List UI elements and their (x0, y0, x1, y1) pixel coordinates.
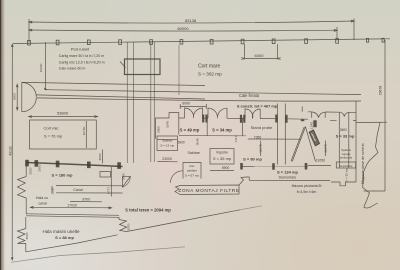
svg-text:Spatii la: Spatii la (341, 148, 351, 152)
svg-text:60000: 60000 (177, 26, 189, 31)
svg-text:S = 80 mp: S = 80 mp (243, 157, 262, 162)
svg-text:Inst.: Inst. (189, 164, 195, 168)
svg-text:23000: 23000 (162, 157, 172, 161)
svg-text:Cale ferata: Cale ferata (239, 93, 260, 98)
svg-text:3245: 3245 (166, 121, 170, 128)
svg-text:S = 57 mp: S = 57 mp (185, 174, 199, 178)
svg-text:S total teren = 2094 mp: S total teren = 2094 mp (125, 207, 171, 212)
svg-text:10700: 10700 (82, 126, 86, 135)
svg-text:sablare: sablare (187, 168, 197, 172)
svg-text:Cale rulare 60 m: Cale rulare 60 m (59, 67, 86, 71)
svg-text:2500: 2500 (29, 167, 33, 174)
svg-text:Hala cu: Hala cu (36, 196, 48, 200)
svg-text:Demontare: Demontare (279, 175, 297, 179)
svg-text:3045: 3045 (195, 138, 199, 145)
svg-text:5900: 5900 (178, 141, 185, 145)
svg-text:43132: 43132 (9, 146, 13, 156)
svg-text:8700: 8700 (83, 197, 91, 201)
svg-text:canal: canal (38, 201, 47, 205)
svg-text:11050: 11050 (316, 158, 325, 162)
svg-text:6000: 6000 (12, 93, 16, 100)
svg-text:6000: 6000 (255, 53, 265, 58)
svg-text:Macara pivotanta 5t: Macara pivotanta 5t (292, 184, 322, 188)
svg-text:Cort mare: Cort mare (198, 64, 220, 70)
svg-text:1713: 1713 (234, 135, 238, 142)
svg-text:3000: 3000 (98, 153, 102, 160)
svg-text:29678: 29678 (379, 86, 383, 96)
svg-text:S = 33 mp: S = 33 mp (336, 134, 355, 139)
svg-text:S = 76 mp: S = 76 mp (44, 134, 63, 139)
svg-text:Carlig mare 50 t la h=7,20 m: Carlig mare 50 t la h=7,20 m (59, 54, 104, 58)
svg-text:S = 362 mp: S = 362 mp (198, 71, 222, 76)
svg-text:1130: 1130 (51, 187, 55, 194)
svg-text:Cort mic: Cort mic (44, 126, 59, 131)
svg-text:Vopsire: Vopsire (216, 151, 228, 155)
svg-text:53800: 53800 (57, 111, 69, 116)
svg-text:S = 13 mp: S = 13 mp (160, 144, 174, 148)
svg-text:Magazie piese de schimb: Magazie piese de schimb (361, 143, 365, 184)
svg-text:Carlig mic 12,5 t la h=8,20 m: Carlig mic 12,5 t la h=8,20 m (59, 60, 105, 64)
svg-text:S = 32 mp: S = 32 mp (345, 168, 349, 182)
svg-text:6777: 6777 (107, 187, 111, 194)
svg-text:83138: 83138 (185, 18, 197, 23)
svg-text:11675: 11675 (259, 144, 263, 153)
svg-text:S constr. tot = 467 mp: S constr. tot = 467 mp (237, 104, 278, 109)
svg-text:S = 88 mp: S = 88 mp (55, 235, 74, 240)
svg-text:S = 35 mp: S = 35 mp (213, 156, 232, 161)
svg-text:fi=4,5m l=6m: fi=4,5m l=6m (297, 190, 317, 194)
svg-text:Spalare: Spalare (162, 139, 173, 143)
svg-text:3000: 3000 (122, 173, 126, 180)
svg-text:Sablare: Sablare (188, 151, 200, 155)
svg-text:Hala masini unelte: Hala masini unelte (42, 229, 80, 234)
svg-text:17020: 17020 (67, 203, 77, 207)
svg-text:Pod rulant: Pod rulant (71, 46, 90, 51)
svg-text:S = 134 mp: S = 134 mp (277, 170, 299, 175)
svg-text:2900: 2900 (38, 164, 42, 171)
svg-text:3000: 3000 (25, 232, 29, 239)
svg-text:2000: 2000 (127, 223, 131, 230)
svg-text:S = 180 mp: S = 180 mp (51, 173, 73, 178)
svg-text:1245: 1245 (310, 122, 314, 129)
svg-text:11675: 11675 (323, 144, 327, 153)
svg-text:10000: 10000 (39, 63, 43, 72)
svg-text:vopsea: vopsea (342, 153, 351, 156)
svg-text:Vopsitorie: Vopsitorie (339, 164, 353, 168)
svg-text:6000: 6000 (182, 102, 190, 106)
svg-text:Stand probe: Stand probe (251, 125, 274, 130)
svg-text:ZONA MONTAJ FILTRE: ZONA MONTAJ FILTRE (178, 188, 239, 194)
svg-text:prelucrata: prelucrata (340, 156, 352, 160)
svg-text:S = 34 mp: S = 34 mp (212, 128, 232, 133)
svg-text:5900: 5900 (222, 166, 230, 170)
svg-text:2900: 2900 (156, 126, 160, 133)
svg-text:Canal: Canal (73, 188, 83, 192)
svg-text:7350: 7350 (254, 135, 262, 139)
svg-text:3600: 3600 (340, 128, 347, 132)
svg-text:S = 49 mp: S = 49 mp (180, 128, 200, 133)
